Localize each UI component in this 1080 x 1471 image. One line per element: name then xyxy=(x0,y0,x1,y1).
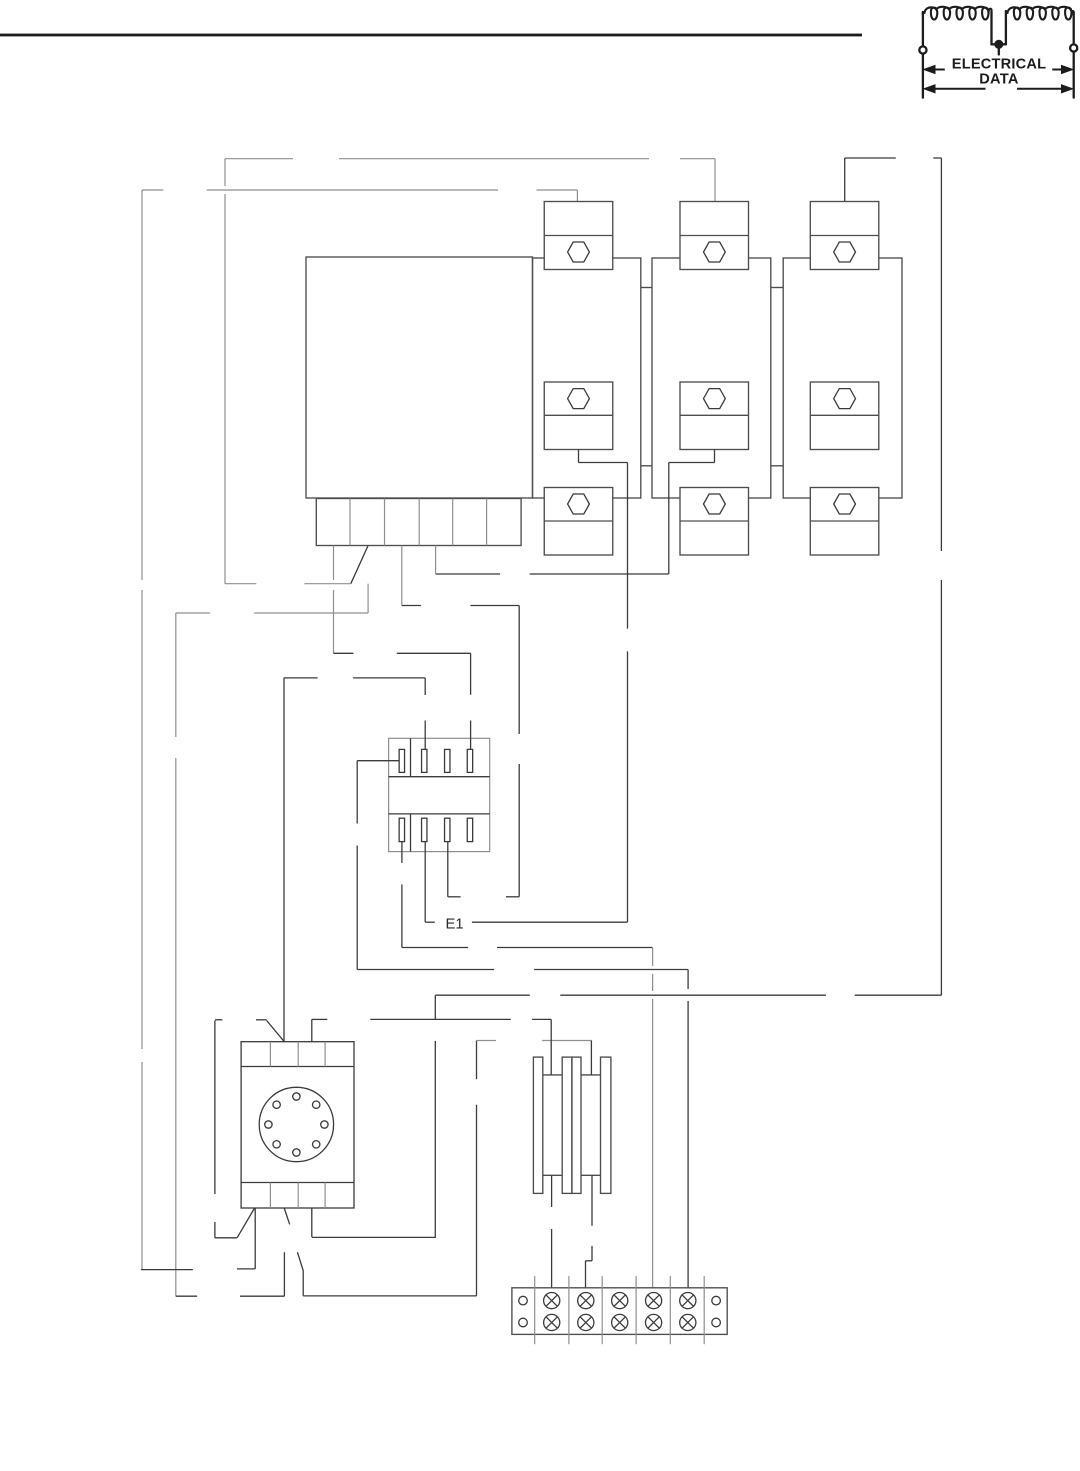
F1 left clip bridges xyxy=(543,1074,562,1076)
wire bus x519 vertical xyxy=(518,606,520,735)
J1 top row line xyxy=(389,776,490,778)
wire breaker CB2 top lead xyxy=(714,159,716,202)
J1 bottom row line xyxy=(389,813,490,815)
TB2 left mount hole a xyxy=(519,1296,528,1305)
TB2 screw terminal 4b xyxy=(646,1314,662,1330)
wire bus x357 down xyxy=(356,761,358,824)
F1 right clip bridges xyxy=(581,1074,601,1076)
wire P1 bottom cell3 lead xyxy=(311,1208,313,1237)
wire y947 horizontal xyxy=(402,947,468,949)
P1 cell2 partner diagonal xyxy=(297,1252,303,1270)
wire J1 pin4 top lead xyxy=(470,653,472,695)
TB2 screw terminal 5b xyxy=(680,1314,696,1330)
TB2 screw terminal 1b xyxy=(544,1314,560,1330)
wire bus x215 vertical xyxy=(214,1021,216,1195)
wire CB3 to right bus xyxy=(845,157,896,159)
wire net B top horizontal xyxy=(142,189,163,191)
TB2 screw terminal 2a xyxy=(578,1293,594,1309)
logo dimension arrows row2 xyxy=(931,88,986,90)
CB1 top stud box xyxy=(544,202,613,270)
P1 bolt circle 6 xyxy=(313,1141,320,1148)
J1 bottom pin 1 slot xyxy=(399,818,404,841)
wire TB1 cell3 drop xyxy=(401,546,403,606)
wire P1 bottom cell2 stub diagonal xyxy=(284,1208,290,1224)
round connector P1 outline xyxy=(241,1042,354,1208)
wire y1269 horizontal xyxy=(141,1269,193,1271)
CB3 middle stud box xyxy=(810,382,879,450)
P1 bottom band line xyxy=(241,1182,354,1184)
wire bus x176 vertical xyxy=(175,613,177,737)
CB1 middle stud box xyxy=(544,382,613,450)
CB2 top stud bolt xyxy=(704,242,726,262)
TB2 screw terminal 5a xyxy=(680,1293,696,1309)
J1 bottom pin 2 slot xyxy=(422,818,427,841)
logo left terminal circle xyxy=(919,46,926,53)
wire J1 pin2 bottom lead E1 net xyxy=(424,842,426,923)
J1 top pin 3 slot xyxy=(445,749,450,772)
wire J1 pin1 net resume xyxy=(401,884,403,947)
TB2 divider 2 xyxy=(568,1276,570,1344)
TB2 divider 6 xyxy=(703,1276,705,1344)
wire bus x225 vertical xyxy=(224,159,226,186)
P1 bolt circle 8 xyxy=(313,1101,320,1108)
TB1 divider 1 xyxy=(349,499,351,546)
wire E1 horizontal xyxy=(425,921,435,923)
P1 bolt circle 5 xyxy=(293,1149,300,1156)
J1 bottom pin 3 slot xyxy=(445,818,450,841)
terminal strip TB2 outline xyxy=(512,1288,727,1335)
logo right winding coil xyxy=(1008,7,1072,20)
CB2 bottom stud box xyxy=(680,488,749,556)
CB1 bottom stud bolt xyxy=(568,494,590,514)
wire x688 down to TB2 xyxy=(687,970,689,990)
CB1 top stud bolt xyxy=(568,242,590,262)
wire x476 vertical xyxy=(476,1041,478,1080)
logo right lead wire xyxy=(1073,12,1075,98)
F1 left-mid wall xyxy=(562,1057,572,1193)
wire F1 pin B jog xyxy=(586,1260,593,1262)
TB1 divider 3 xyxy=(418,499,420,546)
P1 bolt circle 4 xyxy=(273,1141,280,1148)
wire x652 down to TB2 xyxy=(652,948,654,967)
wire TB1 cell1 drop xyxy=(333,546,335,581)
CB2 middle stud bolt xyxy=(704,389,726,409)
J1 top pin 1 slot xyxy=(399,749,404,772)
wire left bus x142 vertical xyxy=(141,190,143,580)
wire right bus vertical xyxy=(940,158,942,551)
wire J1 pin3 bottom lead xyxy=(447,842,449,897)
wire CB2 drop vertical xyxy=(668,463,670,575)
svg-text:DATA: DATA xyxy=(979,72,1019,88)
wire CB2 to TB1 horizontal xyxy=(530,573,669,575)
TB2 divider 4 xyxy=(635,1276,637,1344)
logo left lead wire xyxy=(922,12,924,98)
J1 bottom pin 4 slot xyxy=(467,818,472,841)
TB2 divider 3 xyxy=(601,1276,603,1344)
TB2 left mount hole b xyxy=(519,1318,528,1327)
CB2 middle stud box xyxy=(680,382,749,450)
wire P1 cell2 lead resume xyxy=(283,1252,285,1296)
logo left winding coil xyxy=(925,7,989,20)
TB2 screw terminal 3a xyxy=(612,1293,628,1309)
logo center tap xyxy=(992,43,1006,45)
CB3 top stud box xyxy=(810,202,879,270)
P1 bolt circle 2 xyxy=(273,1101,280,1108)
P1 bolt circle 7 xyxy=(321,1121,328,1128)
svg-text:ELECTRICAL: ELECTRICAL xyxy=(952,57,1046,73)
P1 cell1 breakaway diagonal xyxy=(237,1208,255,1238)
wire y613 horizontal xyxy=(176,612,210,614)
wire P1 bottom cell1 lead xyxy=(254,1208,256,1269)
wire pin3 to x519 bus xyxy=(448,896,461,898)
CB1 bottom stud box xyxy=(544,488,613,556)
terminal block TB1 under regulator xyxy=(316,499,521,546)
wire y1019 horizontal xyxy=(215,1019,222,1021)
TB1 divider 5 xyxy=(486,499,488,546)
CB3 bottom stud bolt xyxy=(834,494,856,514)
link CB1-CB2 upper xyxy=(641,287,652,289)
link CB2-CB3 lower xyxy=(771,465,783,467)
TB2 screw terminal 2b xyxy=(578,1314,594,1330)
P1 bolt circle 3 xyxy=(265,1121,272,1128)
wire F1 pin B top xyxy=(590,1041,592,1075)
wire F1 pin A bottom xyxy=(551,1175,553,1207)
P1 face circle xyxy=(259,1087,333,1161)
wire J1 pin1 bottom stub xyxy=(401,842,403,863)
CB2 top stud box xyxy=(680,202,749,270)
wire into J1 pin1 from left xyxy=(357,760,399,762)
wire P1 top cell3 lead xyxy=(311,1019,313,1041)
wire y583 horizontal xyxy=(225,583,256,585)
circuit breaker CB2 body xyxy=(652,258,771,498)
CB2 bottom stud bolt xyxy=(704,494,726,514)
wire F1 pin B bottom xyxy=(591,1175,593,1226)
wire J1 pin2 top lead xyxy=(424,678,426,695)
wire net A top horizontal xyxy=(225,158,293,160)
svg-text:E1: E1 xyxy=(446,917,464,933)
TB2 divider 5 xyxy=(669,1276,671,1344)
J1 top pin 4 slot xyxy=(467,749,472,772)
wire F1 pin A top xyxy=(550,1019,552,1075)
F1 right-mid wall xyxy=(572,1057,581,1193)
wire CB1 middle stud drop xyxy=(578,450,580,463)
TB2 right mount hole a xyxy=(712,1296,721,1305)
P1 bottom band divider 2 xyxy=(297,1183,299,1209)
wire breaker CB1 top lead xyxy=(576,190,578,202)
link CB2-CB3 upper xyxy=(771,287,783,289)
link CB1-CB2 lower xyxy=(641,465,652,467)
P1 bottom band divider 1 xyxy=(269,1183,271,1209)
wire TB1 cell1 to connector pin4 xyxy=(334,652,354,654)
J1 top pin 2 slot xyxy=(422,749,427,772)
circuit breaker CB3 body xyxy=(783,258,902,498)
circuit breaker CB1 body xyxy=(533,258,641,498)
wire y1237 right segment xyxy=(312,1236,436,1238)
page header rule xyxy=(0,34,862,37)
TB2 screw terminal 1a xyxy=(544,1293,560,1309)
TB2 divider 1 xyxy=(534,1276,536,1344)
wire y995 horizontal xyxy=(435,994,530,996)
P1 bottom band divider 3 xyxy=(324,1183,326,1209)
wire E1 vertical from CB1 xyxy=(627,463,629,629)
P1 top band divider 1 xyxy=(269,1042,271,1067)
P1 top band divider 3 xyxy=(324,1042,326,1067)
connector block J1 outline xyxy=(389,738,490,851)
CB1 middle stud bolt xyxy=(568,389,590,409)
P1 top band divider 2 xyxy=(297,1042,299,1067)
wire y1237 left segment xyxy=(215,1237,237,1239)
wire CB2 middle stud drop xyxy=(714,450,716,463)
fuse holder F1 left wall xyxy=(533,1057,542,1193)
F1 right wall xyxy=(601,1057,611,1193)
wire y678 horizontal xyxy=(284,677,318,679)
wire bus x284 down xyxy=(283,678,285,1042)
wire x435 down xyxy=(434,995,436,1019)
J1 divider bottom xyxy=(410,814,412,852)
wire y1296 horizontal xyxy=(176,1295,197,1297)
P1 top band line xyxy=(241,1066,354,1068)
J1 divider top xyxy=(410,738,412,776)
logo right terminal circle xyxy=(1070,44,1077,51)
wire TB1 cell4 drop xyxy=(435,546,437,575)
wire y969 horizontal xyxy=(357,969,494,971)
wire TB1 cell3 to pin3 bus xyxy=(402,605,421,607)
CB3 top stud bolt xyxy=(834,242,856,262)
electrical data logo xyxy=(919,7,1077,98)
CB3 bottom stud box xyxy=(810,488,879,556)
logo left coil end drop xyxy=(922,12,924,14)
P1 bolt circle 1 xyxy=(293,1093,300,1100)
wire breaker CB3 top lead xyxy=(844,158,846,202)
logo dimension arrows row1 xyxy=(925,66,1071,92)
voltage regulator box A1 xyxy=(306,257,533,498)
CB3 middle stud bolt xyxy=(834,389,856,409)
wire y1040 horizontal to fuse pin B xyxy=(477,1040,496,1042)
TB1 divider 4 xyxy=(452,499,454,546)
wire TB1 cell2 breakaway diagonal xyxy=(351,546,368,584)
wire breakaway diagonal into P1 top xyxy=(267,1021,285,1042)
TB2 right mount hole b xyxy=(712,1318,721,1327)
TB2 screw terminal 4a xyxy=(646,1293,662,1309)
TB2 screw terminal 3b xyxy=(612,1314,628,1330)
TB1 divider 2 xyxy=(384,499,386,546)
wire stub below diagonal xyxy=(367,584,369,613)
